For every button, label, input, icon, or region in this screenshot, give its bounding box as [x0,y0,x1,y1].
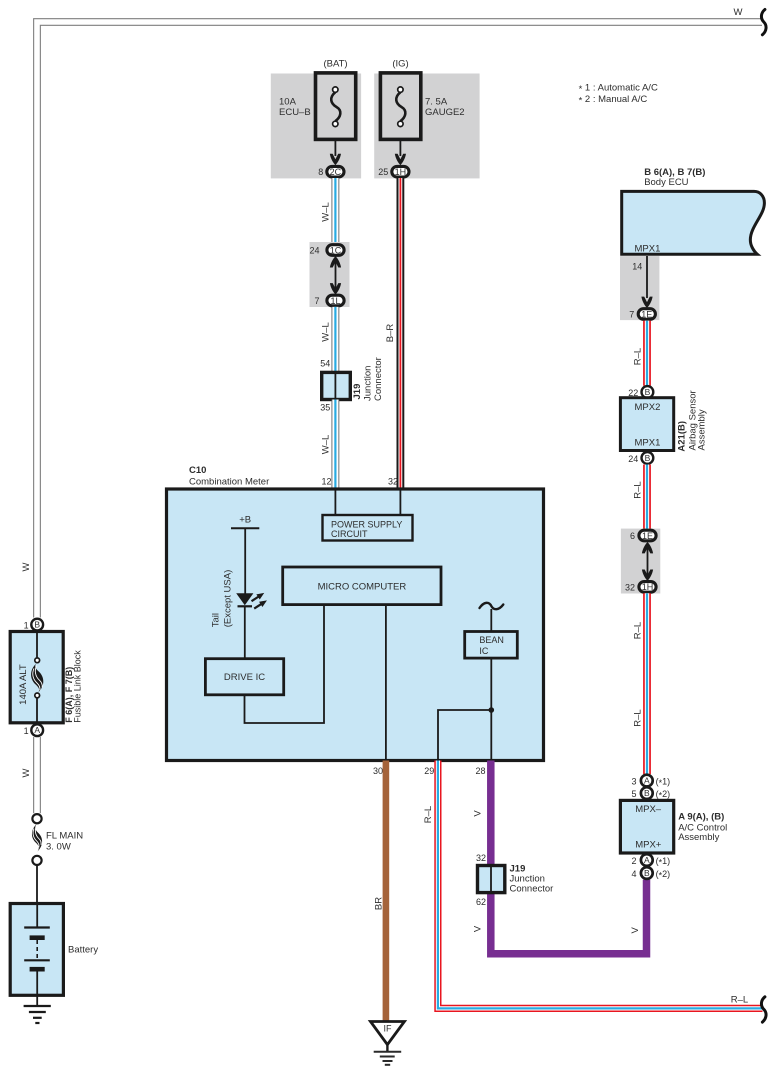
svg-text:Connector: Connector [373,357,384,401]
svg-text:A: A [34,725,40,735]
BEAN IC box [465,632,518,659]
svg-text:B: B [645,387,651,397]
svg-text:ECU–B: ECU–B [279,107,311,118]
pin B 24 [642,452,654,464]
svg-text:R–L: R–L [632,709,643,726]
svg-text:BEAN: BEAN [479,635,504,645]
airbag sensor assembly box [620,398,673,451]
wire pin 14 to 1E [646,256,648,298]
svg-text:Body ECU: Body ECU [644,177,688,188]
drive IC box [205,659,283,695]
connector 1L pin 7 [327,295,344,306]
svg-text:Combination Meter: Combination Meter [189,477,269,488]
svg-text:V: V [473,925,484,932]
wire W (battery feed, top + left) [37,22,762,813]
connector 1E pin 7 [638,309,655,320]
svg-text:MPX1: MPX1 [635,244,661,255]
svg-text:28: 28 [475,766,485,776]
break squiggle bottom right [761,997,766,1022]
svg-text:5: 5 [631,789,636,799]
svg-text:B: B [645,453,651,463]
ground below battery [36,995,38,1005]
svg-text:Junction: Junction [362,366,373,401]
svg-text:DRIVE IC: DRIVE IC [224,672,265,683]
svg-text:32: 32 [388,477,398,487]
junction connector J19 lower [478,866,505,893]
svg-text:(*2): (*2) [656,869,671,881]
svg-text:30: 30 [373,766,383,776]
arrow up to 1E [642,542,653,553]
node junction dot [489,707,495,713]
svg-text:14: 14 [632,261,642,271]
svg-text:7: 7 [629,309,634,319]
svg-text:MPX+: MPX+ [635,840,662,851]
wire fuse2 to 1H [399,139,401,156]
connector 1C pin 24 [327,245,344,256]
svg-text:A 9(A), (B): A 9(A), (B) [678,812,724,823]
svg-text:7. 5A: 7. 5A [425,97,448,108]
svg-text:POWER SUPPLY: POWER SUPPLY [331,520,402,530]
wire R-L 1H to A3 [643,593,651,774]
ground IF triangle [371,1022,405,1045]
connector 1E pin 6 [639,530,656,541]
grey block fuse ECU-B [271,74,361,179]
arrow up to 1C [330,256,341,267]
fuse 10A ECU-B [316,73,356,139]
svg-text:1L: 1L [330,296,340,306]
combination meter C10 box [167,489,544,761]
pin A 2 (*1) [641,854,653,866]
arrow into 1H [395,154,406,165]
svg-text:FL MAIN: FL MAIN [46,831,83,842]
shaft between 1C and 1L [335,258,337,293]
antenna squiggle [480,603,504,609]
wire BR pin 30 to ground [383,761,390,1022]
pin B 4 (*2) [641,867,653,879]
wire drive IC to micro computer [245,605,325,723]
LED tail lamp [236,590,268,611]
battery box [10,904,63,996]
pin B 22 [642,386,654,398]
wire B-R 1H to C10 [396,178,404,489]
connector 1H pin 32 [639,582,656,593]
wire micro computer to pin 30 [385,605,387,762]
svg-text:+B: +B [239,515,251,526]
svg-text:1E: 1E [641,309,652,319]
svg-text:1H: 1H [395,167,407,177]
svg-text:W–L: W–L [321,322,332,342]
svg-text:IC: IC [479,646,489,656]
connector 2C pin 8 [327,166,344,177]
shaft between 1E and 1H [647,545,649,578]
svg-text:6: 6 [630,531,635,541]
svg-text:54: 54 [320,358,330,368]
svg-text:1: 1 [24,726,29,736]
svg-text:Battery: Battery [68,945,98,956]
svg-text:MPX2: MPX2 [635,402,661,413]
svg-text:3: 3 [631,776,636,786]
svg-text:B: B [34,620,40,630]
svg-text:29: 29 [424,766,434,776]
svg-text:24: 24 [309,246,319,256]
svg-text:B–R: B–R [385,324,396,343]
svg-text:A: A [644,855,650,865]
A/C control assembly box [620,800,673,853]
svg-text:W: W [21,768,32,777]
svg-text:W–L: W–L [321,202,332,222]
svg-text:(BAT): (BAT) [323,59,347,70]
body ECU box [622,191,765,254]
svg-text:(Except USA): (Except USA) [223,570,234,628]
fusible link block [10,632,63,723]
pin A 1 [31,724,43,736]
fuse 7.5A GAUGE2 [380,73,420,139]
grey block 1E/1H right [621,529,660,594]
battery symbol [36,904,38,927]
svg-text:Assembly: Assembly [697,409,708,450]
wire R-L pin 29 to right edge [438,761,763,1009]
svg-text:32: 32 [625,583,635,593]
pin A 3 (*1) [641,775,653,787]
wire FL MAIN to battery [36,866,38,904]
svg-text:BR: BR [374,897,385,910]
svg-text:1: 1 [24,620,29,630]
grey block 1C/1L [310,242,350,307]
svg-text:10A: 10A [279,97,297,108]
junction connector J19 upper [322,372,351,399]
arrow into 1E [641,297,652,308]
svg-text:3. 0W: 3. 0W [46,842,71,853]
svg-text:C10: C10 [189,465,206,476]
ground bars [386,1045,388,1052]
svg-text:W–L: W–L [321,435,332,455]
svg-text:A: A [644,776,650,786]
grey block body ECU pin [620,256,659,320]
svg-text:R–L: R–L [632,622,643,639]
wire W-L segment 2C to 1C [331,178,339,244]
svg-text:1H: 1H [642,582,654,592]
connector 1H pin 25 [392,166,409,177]
pin B 5 (*2) [641,787,653,799]
svg-text:R–L: R–L [423,806,434,823]
svg-text:35: 35 [320,403,330,413]
fusible link 140A ALT [31,663,43,694]
svg-text:R–L: R–L [632,481,643,498]
arrow into 2C [330,154,341,165]
svg-text:MICRO COMPUTER: MICRO COMPUTER [318,582,407,593]
svg-text:24: 24 [628,454,638,464]
svg-text:1E: 1E [642,531,653,541]
wire BEAN IC to pin 28 [490,658,492,762]
svg-text:A21(B): A21(B) [677,421,688,452]
wire V pin 28 to A/C assembly [491,761,647,954]
arrow down to 1L [330,283,341,294]
svg-text:2: 2 [631,856,636,866]
svg-text:Tail: Tail [211,613,222,627]
svg-text:25: 25 [378,167,388,177]
wire R-L B24 to 1E [643,465,651,530]
svg-text:R–L: R–L [632,348,643,365]
break squiggle top right [761,10,766,35]
svg-text:W: W [734,7,743,18]
svg-text:V: V [473,810,484,817]
wire branch to pin 29 [438,710,491,762]
svg-text:2C: 2C [330,167,342,177]
svg-text:W: W [21,562,32,571]
svg-text:(IG): (IG) [392,59,408,70]
svg-text:Assembly: Assembly [678,832,719,843]
micro computer box [283,567,441,605]
svg-text:32: 32 [476,853,486,863]
svg-text:(*1): (*1) [656,856,671,868]
svg-text:GAUGE2: GAUGE2 [425,107,465,118]
svg-text:1C: 1C [330,245,342,255]
pin B 1 [31,619,43,631]
svg-text:62: 62 [476,897,486,907]
svg-text:Connector: Connector [510,883,554,894]
svg-text:4: 4 [631,869,636,879]
svg-text:Fusible Link Block: Fusible Link Block [73,650,83,723]
svg-text:B: B [644,868,650,878]
wire W-L segment J19 to C10 [331,400,339,490]
svg-text:IF: IF [384,1024,393,1034]
svg-text:MPX1: MPX1 [635,438,661,449]
svg-text:* 2 : Manual A/C: * 2 : Manual A/C [579,94,648,107]
svg-text:(*2): (*2) [656,789,671,801]
wire LED to drive IC [244,606,246,659]
fuse FL MAIN 3.0W [32,814,41,823]
svg-text:12: 12 [321,477,331,487]
svg-text:(*1): (*1) [656,776,671,788]
svg-text:140A ALT: 140A ALT [18,664,29,705]
grey block fuse GAUGE2 [374,74,479,179]
svg-text:7: 7 [314,296,319,306]
wire inside block [36,632,38,659]
wires pins 12/32 to power supply circuit [334,489,336,515]
svg-text:V: V [630,926,641,933]
arrow down to 1H [642,570,653,581]
svg-text:8: 8 [318,167,323,177]
wire W-L segment 1L to J19 [331,307,339,373]
power supply circuit box [323,515,413,541]
svg-text:J19: J19 [352,384,363,400]
svg-text:R–L: R–L [731,995,748,1006]
svg-text:B: B [644,788,650,798]
wire fuse1 to 2C [334,139,336,156]
svg-text:MPX–: MPX– [635,804,662,815]
wire R-L 1E to B22 [643,321,651,386]
svg-text:CIRCUIT: CIRCUIT [331,529,368,539]
